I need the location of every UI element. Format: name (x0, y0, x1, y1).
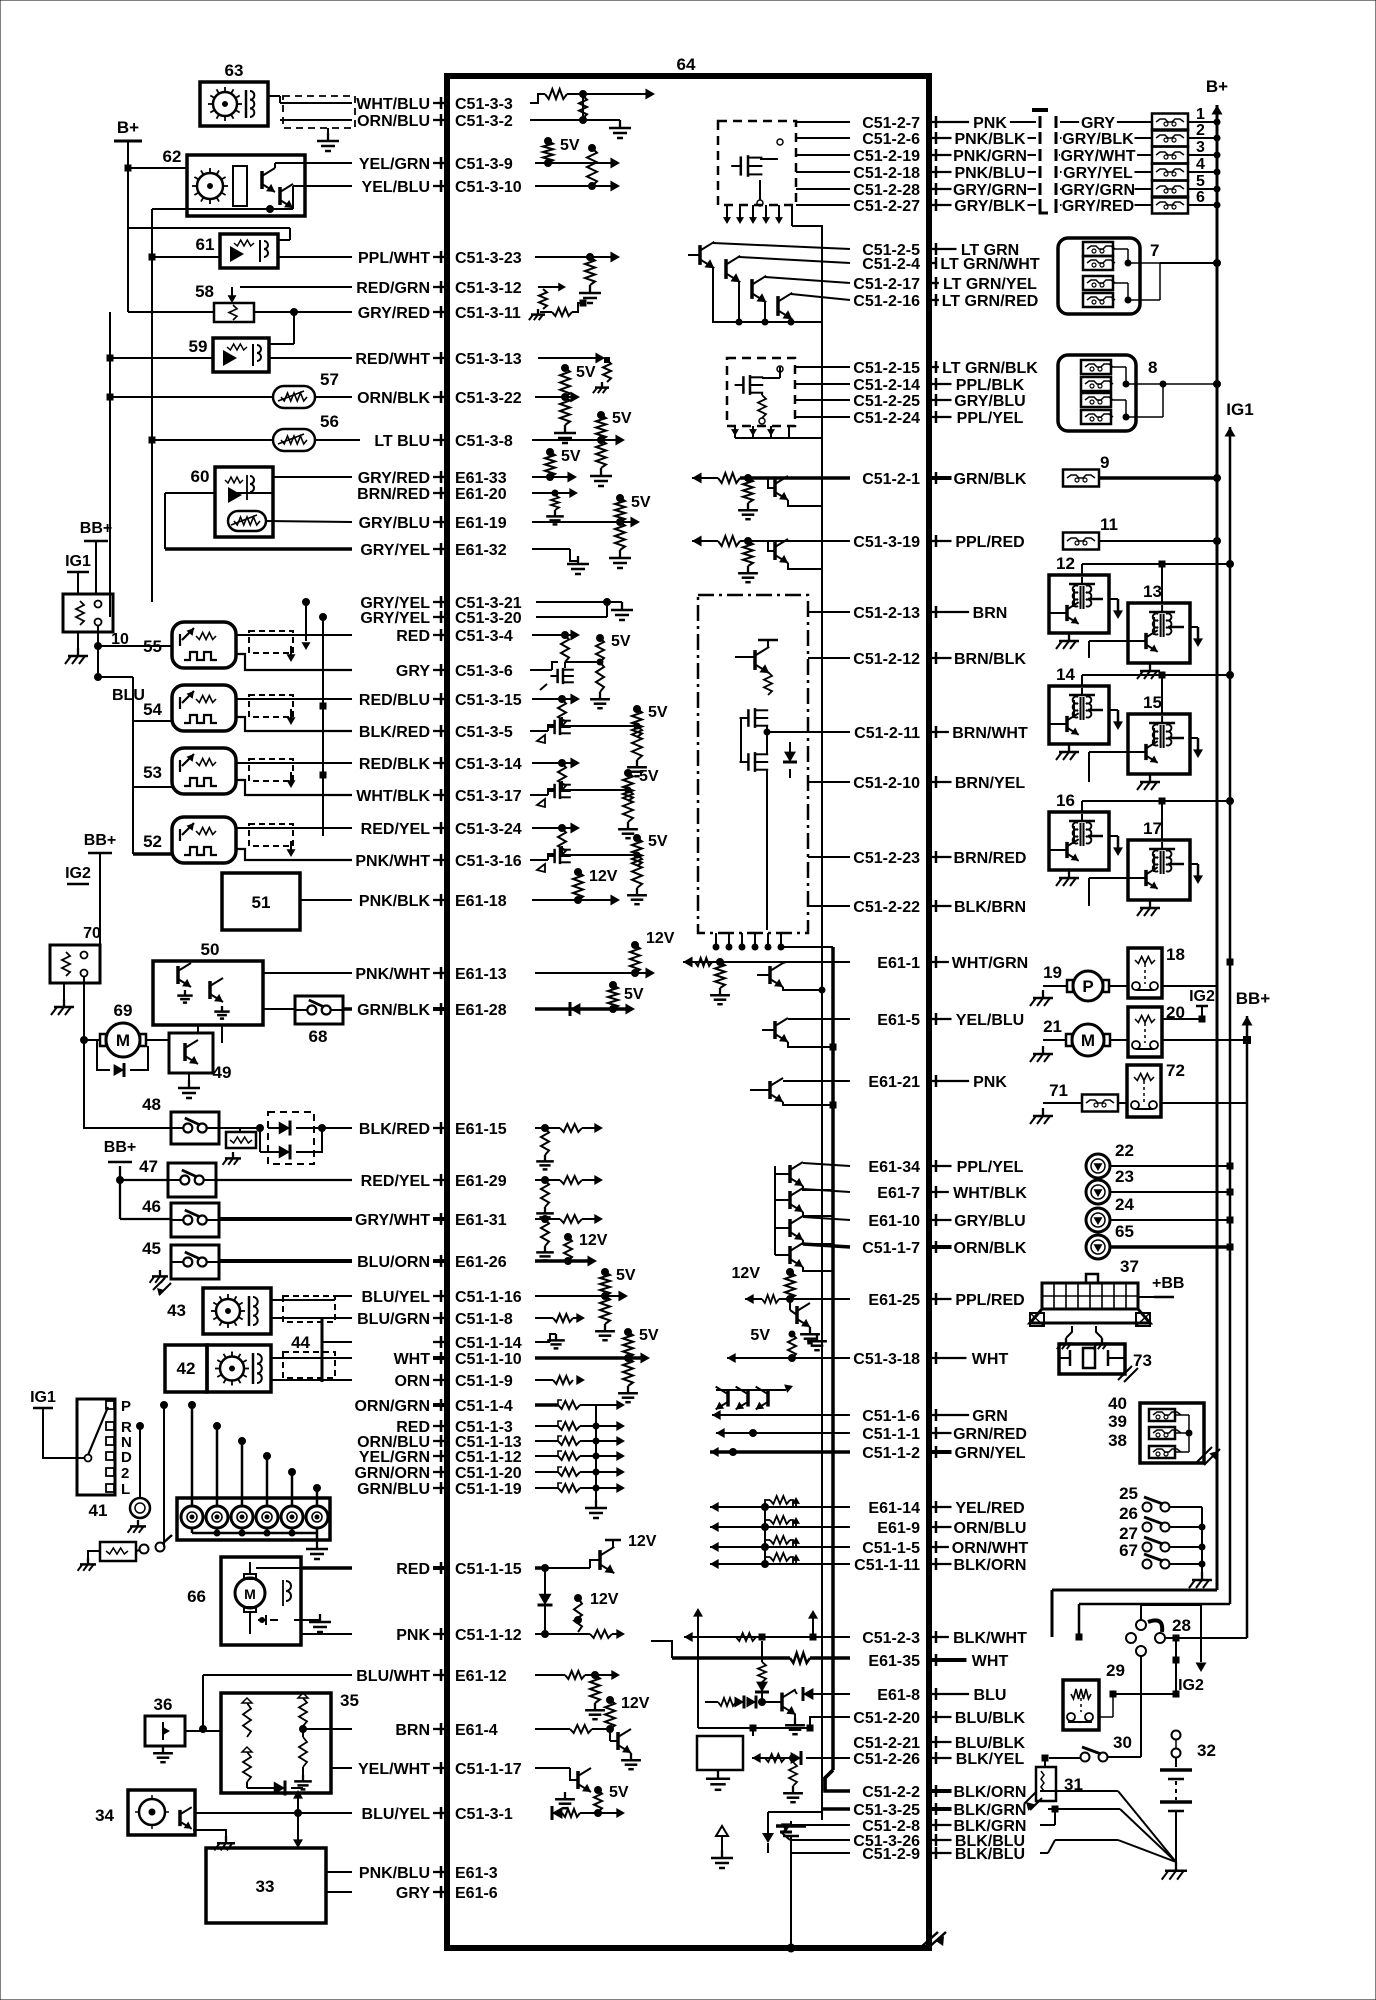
svg-text:BB+: BB+ (84, 832, 116, 849)
svg-text:48: 48 (142, 1095, 161, 1114)
network C51-3-13 (538, 353, 611, 394)
svg-text:PNK/BLU: PNK/BLU (359, 1865, 430, 1882)
left pin row C51-3-12 RED/GRN (356, 280, 522, 297)
output stage E61-21 (750, 1078, 850, 1108)
network E61-20 (532, 488, 578, 524)
right pin row C51-2-28 GRY/GRN (853, 182, 1027, 199)
input stage y=478 (692, 473, 850, 520)
svg-text:C51-2-15: C51-2-15 (853, 360, 920, 377)
5V divider C51-1-10 (535, 1327, 659, 1402)
svg-text:C51-1-19: C51-1-19 (455, 1481, 522, 1498)
svg-text:PPL/RED: PPL/RED (955, 1292, 1024, 1309)
left rail B (107, 312, 128, 617)
left pin row C51-1-20 GRN/ORN (354, 1465, 521, 1482)
svg-text:C51-3-20: C51-3-20 (455, 610, 522, 627)
battery 32 (1160, 1731, 1216, 1880)
left pin row C51-1-9 ORN (394, 1373, 512, 1390)
svg-text:E61-3: E61-3 (455, 1865, 498, 1882)
svg-text:5V: 5V (639, 768, 659, 785)
svg-text:ORN: ORN (394, 1373, 430, 1390)
stubs dash-dot to pins (808, 612, 850, 906)
relay 18 with pump 19 (1030, 945, 1233, 1006)
left pin row E61-20 BRN/RED (357, 486, 507, 503)
svg-text:E61-6: E61-6 (455, 1885, 498, 1902)
relay block 37 (1030, 1257, 1184, 1349)
bottom row stubs (780, 1770, 850, 1853)
svg-text:C51-3-13: C51-3-13 (455, 351, 522, 368)
transistor array C51-2-5..16 (688, 242, 850, 325)
svg-text:BRN: BRN (395, 1722, 430, 1739)
right pin row C51-1-1 GRN/RED (862, 1426, 1027, 1443)
svg-text:1: 1 (1196, 106, 1205, 123)
svg-text:E61-14: E61-14 (868, 1500, 920, 1517)
indicator lamp cluster (177, 1402, 330, 1560)
svg-text:+BB: +BB (1152, 1275, 1184, 1292)
svg-text:C51-2-3: C51-2-3 (862, 1630, 920, 1647)
svg-text:WHT: WHT (972, 1653, 1009, 1670)
right pin row C51-3-19 PPL/RED (853, 534, 1024, 551)
parking fuse switch (78, 1402, 172, 1571)
left pin row C51-3-23 PPL/WHT (358, 250, 522, 267)
svg-text:WHT: WHT (972, 1351, 1009, 1368)
svg-text:BRN/RED: BRN/RED (954, 850, 1027, 867)
svg-text:51: 51 (252, 893, 271, 912)
right pin row C51-2-15 LT GRN/BLK (853, 360, 1038, 377)
svg-text:17: 17 (1143, 819, 1162, 838)
svg-text:GRY/WHT: GRY/WHT (1061, 148, 1136, 165)
fuse 3 row (1059, 139, 1220, 165)
svg-text:C51-1-12: C51-1-12 (455, 1627, 522, 1644)
svg-text:BLK/BRN: BLK/BRN (954, 899, 1026, 916)
svg-text:BLU/GRN: BLU/GRN (357, 1311, 430, 1328)
svg-text:WHT/BLK: WHT/BLK (356, 788, 430, 805)
switch 30 (1042, 1656, 1141, 1762)
right pin row E61-8 BLU (877, 1687, 1006, 1704)
svg-text:C51-3-25: C51-3-25 (853, 1802, 920, 1819)
svg-text:29: 29 (1106, 1661, 1125, 1680)
svg-text:60: 60 (191, 467, 210, 486)
svg-text:BLU/WHT: BLU/WHT (356, 1668, 430, 1685)
svg-text:C51-2-9: C51-2-9 (862, 1846, 920, 1863)
svg-text:12V: 12V (589, 868, 618, 885)
svg-text:C51-2-27: C51-2-27 (853, 198, 920, 215)
svg-text:57: 57 (320, 370, 339, 389)
svg-text:BLU: BLU (974, 1687, 1007, 1704)
left pin row C51-1-12 YEL/GRN (359, 1449, 522, 1466)
svg-text:68: 68 (309, 1027, 328, 1046)
svg-text:PNK/BLU: PNK/BLU (954, 165, 1025, 182)
svg-text:P: P (1082, 977, 1093, 996)
ground diagonals bottom right (1040, 1791, 1176, 1862)
switch 27 (1119, 1524, 1202, 1552)
input C51-3-18 (727, 1327, 850, 1363)
svg-text:C51-3-17: C51-3-17 (455, 788, 522, 805)
svg-text:ORN/GRN: ORN/GRN (354, 1398, 430, 1415)
switch 68 (263, 996, 352, 1046)
right pin row E61-21 PNK (868, 1074, 1007, 1091)
relay 29 (1063, 1661, 1179, 1730)
svg-text:IG2: IG2 (1178, 1677, 1204, 1694)
PRNDL input resistors (535, 1400, 625, 1518)
idle air valve 66 (187, 1557, 352, 1645)
right pin row C51-2-8 BLK/GRN (862, 1818, 1026, 1835)
left pin row C51-3-16 PNK/WHT (355, 853, 521, 870)
air flow sensor 52 (143, 817, 352, 863)
O2 sensor 60 (165, 467, 352, 549)
svg-text:PPL/YEL: PPL/YEL (957, 1159, 1024, 1176)
svg-text:IG2: IG2 (65, 865, 91, 882)
internal battery to ground (711, 1809, 822, 1952)
quad array E61-34..C51-1-7 (775, 1162, 850, 1271)
BB+ label right (1236, 989, 1271, 1008)
igniter pair 12/13 (1049, 554, 1234, 679)
right pin row E61-34 PPL/YEL (868, 1159, 1023, 1176)
selector switch 41 (30, 1389, 132, 1520)
right pin row C51-2-14 PPL/BLK (853, 377, 1024, 394)
switch 26 (1119, 1504, 1202, 1532)
left pin row C51-3-3 WHT/BLU (356, 96, 513, 113)
svg-text:GRY/BLK: GRY/BLK (954, 198, 1026, 215)
regulator box (697, 1728, 753, 1790)
igniter pair 14/15 (1049, 665, 1234, 790)
BLU/WHT wire (200, 1675, 353, 1733)
svg-text:IG2: IG2 (1189, 988, 1215, 1005)
svg-text:E61-10: E61-10 (868, 1213, 920, 1230)
svg-text:50: 50 (201, 940, 220, 959)
svg-text:22: 22 (1115, 1141, 1134, 1160)
svg-text:PPL/BLK: PPL/BLK (956, 377, 1025, 394)
svg-text:BLU/YEL: BLU/YEL (362, 1806, 431, 1823)
svg-text:WHT/BLK: WHT/BLK (953, 1185, 1027, 1202)
svg-text:BB+: BB+ (80, 520, 112, 537)
right pin row C51-2-20 BLU/BLK (853, 1710, 1025, 1727)
right pin row C51-3-26 BLK/BLU (853, 1833, 1025, 1850)
svg-text:BRN/RED: BRN/RED (357, 486, 430, 503)
left pin row C51-1-13 ORN/BLU (357, 1434, 522, 1451)
svg-text:5V: 5V (609, 1784, 629, 1801)
svg-text:C51-3-3: C51-3-3 (455, 96, 513, 113)
B+ bus vertical (1052, 105, 1223, 1637)
svg-text:66: 66 (187, 1587, 206, 1606)
lamps connector 38/39/40 (1108, 1394, 1220, 1465)
svg-text:C51-2-23: C51-2-23 (853, 850, 920, 867)
pullup network C51-3-3/C51-3-2 (530, 89, 655, 139)
svg-text:YEL/BLU: YEL/BLU (956, 1012, 1024, 1029)
svg-text:C51-2-17: C51-2-17 (853, 276, 920, 293)
svg-text:GRY/WHT: GRY/WHT (355, 1212, 430, 1229)
svg-text:IG1: IG1 (30, 1389, 56, 1406)
svg-text:BLK/YEL: BLK/YEL (956, 1751, 1025, 1768)
network C51-3-12/C51-3-11 (529, 283, 586, 321)
svg-text:46: 46 (142, 1197, 161, 1216)
svg-text:39: 39 (1108, 1412, 1127, 1431)
svg-text:C51-2-13: C51-2-13 (853, 605, 920, 622)
svg-text:5V: 5V (750, 1327, 770, 1344)
svg-text:C51-2-10: C51-2-10 (853, 775, 920, 792)
heater oval 57 (110, 370, 352, 408)
svg-text:E61-19: E61-19 (455, 515, 507, 532)
relay 72 with fuse 71 (1030, 1061, 1247, 1124)
svg-text:PPL/RED: PPL/RED (955, 534, 1024, 551)
5V pullups C51-3-9/C51-3-10 (535, 137, 620, 192)
svg-text:RED: RED (396, 628, 430, 645)
svg-text:12V: 12V (590, 1591, 619, 1608)
svg-text:M: M (244, 1586, 256, 1602)
svg-text:GRY/BLU: GRY/BLU (954, 1213, 1025, 1230)
left pin row E61-13 PNK/WHT (355, 966, 506, 983)
5V network C51-3-1 (552, 1784, 629, 1820)
svg-text:E61-20: E61-20 (455, 486, 507, 503)
svg-text:C51-1-16: C51-1-16 (455, 1289, 522, 1306)
svg-text:5V: 5V (624, 986, 644, 1003)
right pin row E61-9 ORN/BLU (877, 1520, 1026, 1537)
svg-text:C51-3-16: C51-3-16 (455, 853, 522, 870)
left rail A (149, 209, 190, 602)
svg-text:C51-2-4: C51-2-4 (862, 256, 920, 273)
svg-text:C51-2-25: C51-2-25 (853, 393, 920, 410)
right pin row C51-1-11 BLK/ORN (854, 1557, 1026, 1574)
svg-text:GRY/YEL: GRY/YEL (360, 610, 430, 627)
svg-text:E61-1: E61-1 (877, 955, 920, 972)
svg-text:E61-21: E61-21 (868, 1074, 920, 1091)
IG1 label right (1226, 400, 1253, 419)
svg-text:C51-1-12: C51-1-12 (455, 1449, 522, 1466)
right pin row C51-2-13 BRN (853, 605, 1007, 622)
svg-text:C51-1-7: C51-1-7 (862, 1240, 920, 1257)
svg-text:C51-2-11: C51-2-11 (854, 725, 920, 742)
svg-text:RED/YEL: RED/YEL (361, 1173, 431, 1190)
fuse 31 (1024, 1758, 1083, 1811)
svg-text:GRY/YEL: GRY/YEL (1063, 165, 1133, 182)
svg-text:WHT/BLU: WHT/BLU (356, 96, 430, 113)
svg-text:C51-3-1: C51-3-1 (455, 1806, 513, 1823)
right pin row C51-2-7 PNK (862, 115, 1007, 132)
svg-text:34: 34 (95, 1806, 114, 1825)
quad driver dashed box B (727, 358, 850, 438)
svg-text:53: 53 (143, 763, 162, 782)
svg-text:C51-3-6: C51-3-6 (455, 663, 513, 680)
row E61-35 interior (651, 1641, 850, 1663)
fuse 2 row (1060, 122, 1220, 148)
variable resistor 58 (128, 168, 352, 322)
left pin row C51-3-14 RED/BLK (359, 756, 522, 773)
svg-text:D: D (121, 1449, 132, 1466)
svg-text:E61-29: E61-29 (455, 1173, 507, 1190)
svg-text:RED/WHT: RED/WHT (355, 351, 430, 368)
svg-text:E61-35: E61-35 (868, 1653, 920, 1670)
output stage E61-25 (732, 1265, 850, 1343)
svg-text:BRN/WHT: BRN/WHT (952, 725, 1028, 742)
svg-text:BLU/BLK: BLU/BLK (955, 1735, 1026, 1752)
svg-text:LT GRN/BLK: LT GRN/BLK (942, 360, 1038, 377)
svg-text:38: 38 (1108, 1431, 1127, 1450)
svg-text:GRN: GRN (972, 1408, 1008, 1425)
svg-text:C51-3-22: C51-3-22 (455, 390, 522, 407)
svg-text:63: 63 (225, 61, 244, 80)
svg-text:C51-2-19: C51-2-19 (853, 148, 920, 165)
svg-text:LT GRN/RED: LT GRN/RED (942, 293, 1039, 310)
switch group ground line (1189, 1507, 1212, 1588)
right pin row E61-10 GRY/BLU (868, 1213, 1025, 1230)
connector group 8 (1058, 355, 1221, 431)
svg-text:E61-28: E61-28 (455, 1002, 507, 1019)
svg-text:72: 72 (1166, 1061, 1185, 1080)
svg-text:PNK/WHT: PNK/WHT (355, 853, 430, 870)
svg-text:C51-1-1: C51-1-1 (862, 1426, 920, 1443)
right pin row C51-2-9 BLK/BLU (862, 1846, 1025, 1863)
right pin row C51-2-10 BRN/YEL (853, 775, 1025, 792)
svg-text:C51-2-28: C51-2-28 (853, 182, 920, 199)
triple array C51-1-6/1/2 (710, 1384, 850, 1457)
svg-text:C51-3-12: C51-3-12 (455, 280, 522, 297)
svg-text:36: 36 (154, 1695, 173, 1714)
svg-text:C51-2-22: C51-2-22 (853, 899, 920, 916)
svg-text:41: 41 (89, 1501, 108, 1520)
left pin row C51-3-10 YEL/BLU (362, 179, 522, 196)
svg-text:BLU/BLK: BLU/BLK (955, 1710, 1026, 1727)
shield drains (302, 599, 327, 837)
svg-text:BRN/BLK: BRN/BLK (954, 651, 1026, 668)
svg-text:54: 54 (143, 700, 162, 719)
filter E61-12 (535, 1670, 620, 1719)
svg-text:9: 9 (1100, 453, 1109, 472)
inhibitor switch 28 (1126, 1616, 1247, 1694)
svg-text:69: 69 (114, 1001, 133, 1020)
svg-text:ORN/BLK: ORN/BLK (357, 390, 430, 407)
output stage E61-5 (762, 1018, 850, 1050)
svg-text:YEL/BLU: YEL/BLU (362, 179, 430, 196)
network C51-1-12 (535, 1591, 625, 1639)
svg-text:GRY/BLU: GRY/BLU (359, 515, 430, 532)
svg-text:C51-2-18: C51-2-18 (853, 165, 920, 182)
svg-text:21: 21 (1043, 1017, 1062, 1036)
svg-text:ORN/WHT: ORN/WHT (952, 1540, 1029, 1557)
svg-text:GRN/BLK: GRN/BLK (357, 1002, 430, 1019)
crank sensor 42 with bracket (165, 1345, 352, 1392)
svg-text:RED/BLK: RED/BLK (359, 756, 431, 773)
quad driver dashed box A (718, 121, 850, 226)
svg-text:BRN/YEL: BRN/YEL (955, 775, 1025, 792)
right pin row C51-2-6 PNK/BLK (862, 131, 1026, 148)
svg-text:LT GRN/YEL: LT GRN/YEL (943, 276, 1037, 293)
row C51-2-3 interior (684, 1608, 850, 1728)
svg-text:13: 13 (1143, 582, 1162, 601)
right pin row C51-1-6 GRN (862, 1408, 1008, 1425)
svg-text:2: 2 (1196, 122, 1205, 139)
right pin row C51-2-17 LT GRN/YEL (853, 276, 1037, 293)
input filter row y=1180 (535, 1175, 603, 1221)
svg-text:18: 18 (1166, 945, 1185, 964)
fuse 11 (1063, 515, 1221, 550)
svg-text:4: 4 (1196, 156, 1205, 173)
svg-text:37: 37 (1120, 1257, 1139, 1276)
internal bus thick (825, 947, 833, 1791)
svg-text:C51-2-20: C51-2-20 (853, 1710, 920, 1727)
svg-text:C51-1-11: C51-1-11 (854, 1557, 920, 1574)
svg-text:BLK/RED: BLK/RED (359, 1121, 430, 1138)
svg-text:11: 11 (1100, 515, 1118, 534)
svg-text:GRY/RED: GRY/RED (1062, 198, 1134, 215)
svg-text:GRN/BLU: GRN/BLU (357, 1481, 430, 1498)
svg-text:BLU: BLU (112, 687, 145, 704)
switch 25 (1119, 1484, 1202, 1512)
node line C51-2-20 (698, 1717, 850, 1731)
right pin row C51-2-22 BLK/BRN (853, 899, 1026, 916)
svg-text:GRY: GRY (396, 1885, 430, 1902)
svg-text:PNK/WHT: PNK/WHT (355, 966, 430, 983)
svg-text:BLK/WHT: BLK/WHT (953, 1630, 1027, 1647)
svg-text:5V: 5V (616, 1267, 636, 1284)
BB+ IG2 labels lower (65, 832, 116, 957)
left pin row E61-12 BLU/WHT (356, 1668, 506, 1685)
12V pullup E61-26 (535, 1232, 608, 1267)
svg-text:5V: 5V (648, 704, 668, 721)
solenoid valve 22 (1086, 1141, 1233, 1178)
internal bus thin (821, 225, 823, 1820)
svg-text:C51-3-19: C51-3-19 (853, 534, 920, 551)
svg-text:C51-1-5: C51-1-5 (862, 1540, 920, 1557)
heater oval 56 (152, 412, 360, 451)
svg-text:C51-1-4: C51-1-4 (455, 1398, 513, 1415)
ECU bottom-right chassis ground (920, 1932, 946, 1948)
right pin row C51-2-1 GRN/BLK (862, 471, 1027, 488)
svg-text:C51-3-15: C51-3-15 (455, 692, 522, 709)
igniter pair 16/17 (1049, 791, 1234, 916)
12V switch C51-1-15 (535, 1533, 657, 1634)
svg-text:C51-1-15: C51-1-15 (455, 1561, 522, 1578)
svg-text:PNK: PNK (973, 1074, 1007, 1091)
svg-text:E61-15: E61-15 (455, 1121, 507, 1138)
IG1 bus vertical (1076, 427, 1236, 1640)
switch 45 (142, 1239, 352, 1296)
svg-text:C51-3-4: C51-3-4 (455, 628, 513, 645)
right pin row C51-1-7 ORN/BLK (862, 1240, 1027, 1257)
svg-text:32: 32 (1197, 1741, 1216, 1760)
left pin row E61-32 GRY/YEL (360, 542, 506, 559)
motor 69 (81, 1001, 154, 1077)
crank sensor 43 (167, 1288, 352, 1334)
12V pullup E61-4 (535, 1695, 650, 1769)
svg-text:YEL/GRN: YEL/GRN (359, 156, 430, 173)
svg-text:12V: 12V (621, 1695, 650, 1712)
svg-text:GRN/RED: GRN/RED (953, 1426, 1027, 1443)
svg-text:BLU/ORN: BLU/ORN (357, 1254, 430, 1271)
right pin row C51-2-21 BLU/BLK (853, 1735, 1025, 1752)
input stage y=541 (692, 536, 850, 583)
BB+ bus vertical (1242, 1016, 1253, 1638)
sensor interface C51-3-4/C51-3-6 (530, 630, 631, 709)
svg-text:E61-25: E61-25 (868, 1292, 920, 1309)
svg-text:YEL/WHT: YEL/WHT (358, 1761, 430, 1778)
svg-text:12V: 12V (732, 1265, 761, 1282)
right pin row C51-1-2 GRN/YEL (862, 1445, 1026, 1462)
svg-text:8: 8 (1148, 358, 1157, 377)
svg-text:C51-1-6: C51-1-6 (862, 1408, 920, 1425)
svg-text:25: 25 (1119, 1484, 1138, 1503)
wire C51-2-13 to box 12 (1047, 611, 1049, 613)
svg-text:M: M (1081, 1031, 1095, 1050)
svg-text:59: 59 (189, 337, 208, 356)
svg-text:5V: 5V (561, 448, 581, 465)
sensor 36 (145, 1695, 221, 1762)
svg-text:E61-9: E61-9 (877, 1520, 920, 1537)
svg-text:GRY/YEL: GRY/YEL (360, 542, 430, 559)
svg-text:5V: 5V (648, 833, 668, 850)
pulldown C51-3-23 (535, 252, 620, 304)
right pin row E61-25 PPL/RED (868, 1292, 1024, 1309)
svg-text:ORN/BLU: ORN/BLU (954, 1520, 1027, 1537)
svg-text:GRN/ORN: GRN/ORN (354, 1465, 430, 1482)
